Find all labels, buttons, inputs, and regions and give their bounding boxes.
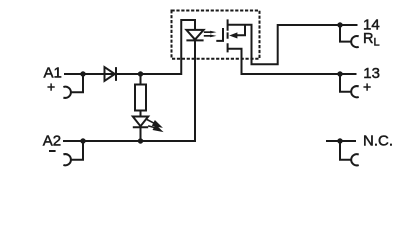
wire A2 line from optocoupler LED cathode [63,40,195,141]
wire body tie to drain [237,25,246,36]
node junction A2-hook [80,138,85,143]
terminal N.C. clamp symbol [351,154,359,165]
wire A1 input line to optocoupler LED anode [64,20,195,74]
wire N.C. terminal hook drop [340,141,351,160]
opto light arrow upper [204,31,211,33]
opto light arrow lower [204,35,211,37]
node junction A1-hook [80,71,85,76]
node junction 14 [337,22,342,27]
wire drain tap to terminal 14 [228,25,358,65]
wire A2 terminal hook drop [71,141,83,160]
node junction A2-LED [138,138,143,143]
wire N.C. stub [326,140,356,142]
node junction N.C. [337,138,342,143]
node junction A1-resistor [138,71,143,76]
terminal A2 clamp symbol [63,154,71,165]
transistor Q1 channel segments [227,19,229,52]
opto LED emitter diode [186,30,203,41]
wire source tap to terminal 13 [228,49,357,74]
wire 14 terminal hook drop [340,25,351,42]
wire resistor to LED [140,111,142,117]
svg-text:A2: A2 [43,132,61,149]
wire LED to A2 line [140,127,142,141]
diode D1 protection diode on A1 line [105,67,117,81]
LED light arrow lower [148,126,155,128]
svg-text:RL: RL [363,31,380,49]
wire A1 terminal hook drop [71,74,83,92]
terminal 14 clamp symbol [351,36,359,47]
svg-text:+: + [47,79,55,95]
label A2 minus [49,150,56,152]
LED light arrow upper [147,120,154,124]
svg-text:+: + [363,79,371,95]
transistor body arrow [229,32,237,38]
transistor Q1 photoMOS gate [216,28,223,41]
optocoupler U1 dashed box [172,11,260,59]
svg-text:N.C.: N.C. [363,133,393,150]
wire 13 terminal hook drop [340,74,351,92]
node junction 13 [337,71,342,76]
terminal A1 clamp symbol [63,87,71,98]
terminal 13 clamp symbol [351,86,359,97]
wire junction to resistor branch [140,74,142,85]
LED V1 indicator diode [133,117,148,128]
resistor R1 [135,85,146,111]
